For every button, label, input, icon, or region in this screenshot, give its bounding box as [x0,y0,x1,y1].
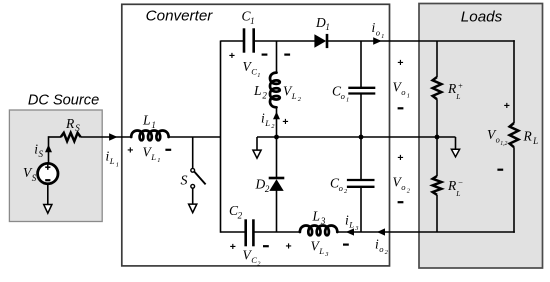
svg-text:+: + [286,241,292,253]
svg-text:+: + [230,241,236,253]
svg-text:S: S [181,174,188,189]
svg-text:+: + [229,50,235,62]
svg-text:+: + [397,57,403,69]
svg-text:DC Source: DC Source [28,92,99,108]
svg-text:+: + [504,100,510,112]
svg-text:+: + [282,116,288,128]
svg-text:Converter: Converter [146,8,214,25]
svg-text:+: + [127,145,133,157]
svg-text:Loads: Loads [461,8,503,25]
svg-text:+: + [397,152,403,164]
